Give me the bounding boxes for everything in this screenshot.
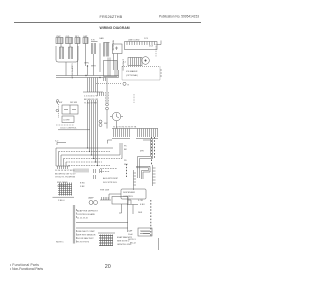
svg-text:LINE NEUT COMP: LINE NEUT COMP [77,231,95,233]
terminal strip connector J1 [125,42,158,50]
svg-text:4PK: 4PK [140,151,145,153]
right ladder connector [153,165,156,186]
svg-text:1CX: 1CX [144,38,149,40]
svg-text:WHT: WHT [91,66,96,68]
bus stub wire 8 [100,171,110,173]
main supply bus L1/N [56,70,119,78]
dashed sense wire [155,44,157,57]
svg-text:SOL WTR SOL: SOL WTR SOL [103,182,118,184]
svg-text:T1 T2 T3 T4 T5 T6 T7 T8: T1 T2 T3 T4 T5 T6 T7 T8 [113,126,137,128]
connector P5 labels [124,146,128,167]
board lower label rows [77,231,96,244]
connector block CN1 [56,38,63,44]
svg-text:FRS26ZTHB: FRS26ZTHB [100,15,123,19]
aux label column [80,183,85,189]
dispenser control box [121,189,146,199]
header publication number [159,15,199,19]
connector block CN3 [75,38,80,44]
svg-text:13 14 15 16 17 18 19: 13 14 15 16 17 18 19 [55,170,75,172]
connector block CN4 [83,38,88,44]
svg-text:ICE MAKER: ICE MAKER [126,70,138,73]
svg-text:DEF: DEF [138,212,143,214]
capacitor labels [128,230,133,237]
lamp socket circles [88,197,98,205]
svg-text:CONTROL BOARD: CONTROL BOARD [77,213,96,216]
wire bundle drop [83,78,106,97]
svg-text:P1 P2 P3 P4: P1 P2 P3 P4 [77,242,90,244]
capacitor C2 box [138,228,152,236]
bus return comb [58,166,68,169]
freezer light switch box [62,105,78,114]
water valve plug circles [99,120,108,127]
dispenser feed wire [109,194,121,200]
rotated connector label column [126,164,128,177]
svg-text:COLD CONTROL: COLD CONTROL [60,128,77,130]
svg-text:LAMP: LAMP [88,197,94,200]
board internal label rows [77,210,99,220]
connector block CN2 [66,38,73,44]
wire pair to ice maker [108,58,110,77]
ground stub right [158,238,160,250]
compressor M1 shell [56,44,78,63]
control board top comb [100,197,111,200]
board bus wire upper [76,222,128,224]
svg-text:LIGHT: LIGHT [64,120,71,122]
header rule [14,21,201,23]
wire drops to bus [66,44,94,76]
svg-text:GRN/YEL GND: GRN/YEL GND [117,244,132,246]
run capacitor C1 bars [91,42,98,55]
junction cluster [84,63,96,76]
defrost thermostat circle [142,57,150,65]
bus wire YL dashed [66,162,102,166]
svg-text:6 BU: 6 BU [140,204,145,206]
bus wire WH dashed [59,152,111,167]
svg-text:CAP: CAP [128,230,133,233]
svg-text:(OPTIONAL): (OPTIONAL) [126,74,138,77]
bus wire BK [56,148,113,166]
svg-text:HTR 15W: HTR 15W [100,190,109,192]
svg-text:DR SW: DR SW [70,102,77,104]
page number [105,264,111,270]
note rows right [128,239,137,245]
svg-text:9 BK: 9 BK [80,186,85,188]
footer note functional parts [10,263,39,267]
svg-text:WIRING DIAGRAM: WIRING DIAGRAM [100,26,130,30]
defrost timer motor circle [110,112,123,128]
svg-text:FAN: FAN [100,37,105,40]
svg-text:2CX: 2CX [149,46,154,48]
connector bracket marks [94,169,102,179]
label rows near relay [138,200,145,214]
svg-text:4 PIN PLUG: 4 PIN PLUG [121,59,123,71]
svg-text:LINE CORD: LINE CORD [128,40,140,42]
bus return wire [56,165,70,167]
matrix base wire [53,196,75,198]
interconnect matrix grid [58,183,72,196]
footer note non-functional parts [10,267,43,271]
svg-text:• Non-Functional Parts: • Non-Functional Parts [10,267,43,271]
svg-text:COMPRESSOR: COMPRESSOR [71,64,73,80]
cold control baseline wire [58,129,90,131]
board right edge wire [127,197,129,233]
harness bundle vertical wires [88,100,98,166]
svg-text:DISPENSER: DISPENSER [123,192,136,194]
svg-text:1 2 3 4 5 6 7 8: 1 2 3 4 5 6 7 8 [84,96,98,98]
svg-text:5 OR: 5 OR [138,200,143,202]
dashed water valve wire [96,82,130,86]
svg-text:S R: S R [91,40,95,42]
label block temp control [57,182,68,188]
jumper dashes [141,231,150,233]
bus stub wire 7 [100,168,117,170]
terminal board strip [112,129,158,139]
svg-text:EVAP FAN MTR: EVAP FAN MTR [117,236,133,239]
svg-text:NOTE 3: NOTE 3 [128,239,136,241]
title WIRING DIAGRAM [100,26,130,30]
bus junction dots [87,147,98,166]
ice maker outline [104,61,118,77]
bus wire RD [61,143,120,166]
refrigerator light box [62,116,74,123]
svg-text:LT SW: LT SW [56,102,62,104]
svg-text:GY BU YL TN WH BK: GY BU YL TN WH BK [55,177,76,179]
control board left edge [73,205,75,244]
bus wire OR dashed [64,143,123,166]
damper control staircase wire [136,166,150,179]
label rows dispenser [100,177,119,192]
board bus wire lower [76,227,128,229]
svg-text:20: 20 [105,264,111,270]
svg-text:FRZ TEMP: FRZ TEMP [57,182,68,184]
rotated label column far right [150,200,152,236]
evaporator fan junction blob [98,233,115,246]
defrost heater hatched box [128,58,142,66]
svg-text:8 RD: 8 RD [80,183,85,185]
wiring label block rows [55,170,76,179]
pin comb [74,169,88,173]
wire pair from relay box [114,54,118,71]
svg-text:Publication No. 5995414153: Publication No. 5995414153 [159,15,199,19]
svg-text:DOOR FAN TEST: DOOR FAN TEST [77,237,94,240]
svg-text:DEF HTR SENSOR: DEF HTR SENSOR [77,235,96,237]
thermostat ladder [134,170,137,190]
svg-text:WH: WH [124,164,128,166]
corner stub top right [157,41,161,45]
condenser fan motor bars [100,43,110,73]
rotated wire labels [106,92,135,104]
node X2 stub wire [57,143,66,146]
plug connector circles [106,103,109,128]
mullion heater staircase wire [138,139,153,178]
door switch plunger [56,104,59,118]
svg-text:10uF: 10uF [128,234,133,236]
board row ticks [76,209,78,243]
PTC relay box [113,44,123,54]
svg-text:AUG MTR DISP: AUG MTR DISP [103,177,119,180]
svg-text:NOTE 1: NOTE 1 [56,242,64,244]
rotated label column right of strip [152,137,155,164]
svg-text:2 BK-4: 2 BK-4 [58,200,65,202]
svg-text:J1 J2 J3 J4: J1 J2 J3 J4 [77,218,88,220]
svg-text:GRN: GRN [84,63,89,65]
dotted control wire [56,124,74,126]
bus wire BU dashed [69,165,111,168]
svg-text:ADAPTIVE DEFROST: ADAPTIVE DEFROST [77,210,99,213]
header model number [100,15,123,19]
thermostat bulb [56,100,58,104]
ice maker dashed box [122,67,162,81]
svg-text:SEE NOTE 2: SEE NOTE 2 [117,241,130,243]
terminal board feed corner [108,140,113,144]
relay K1 box [112,197,131,214]
evap fan note rows [117,236,133,246]
tee junction wire [127,205,138,215]
svg-text:BK WH RD OR YL GY: BK WH RD OR YL GY [55,173,76,175]
